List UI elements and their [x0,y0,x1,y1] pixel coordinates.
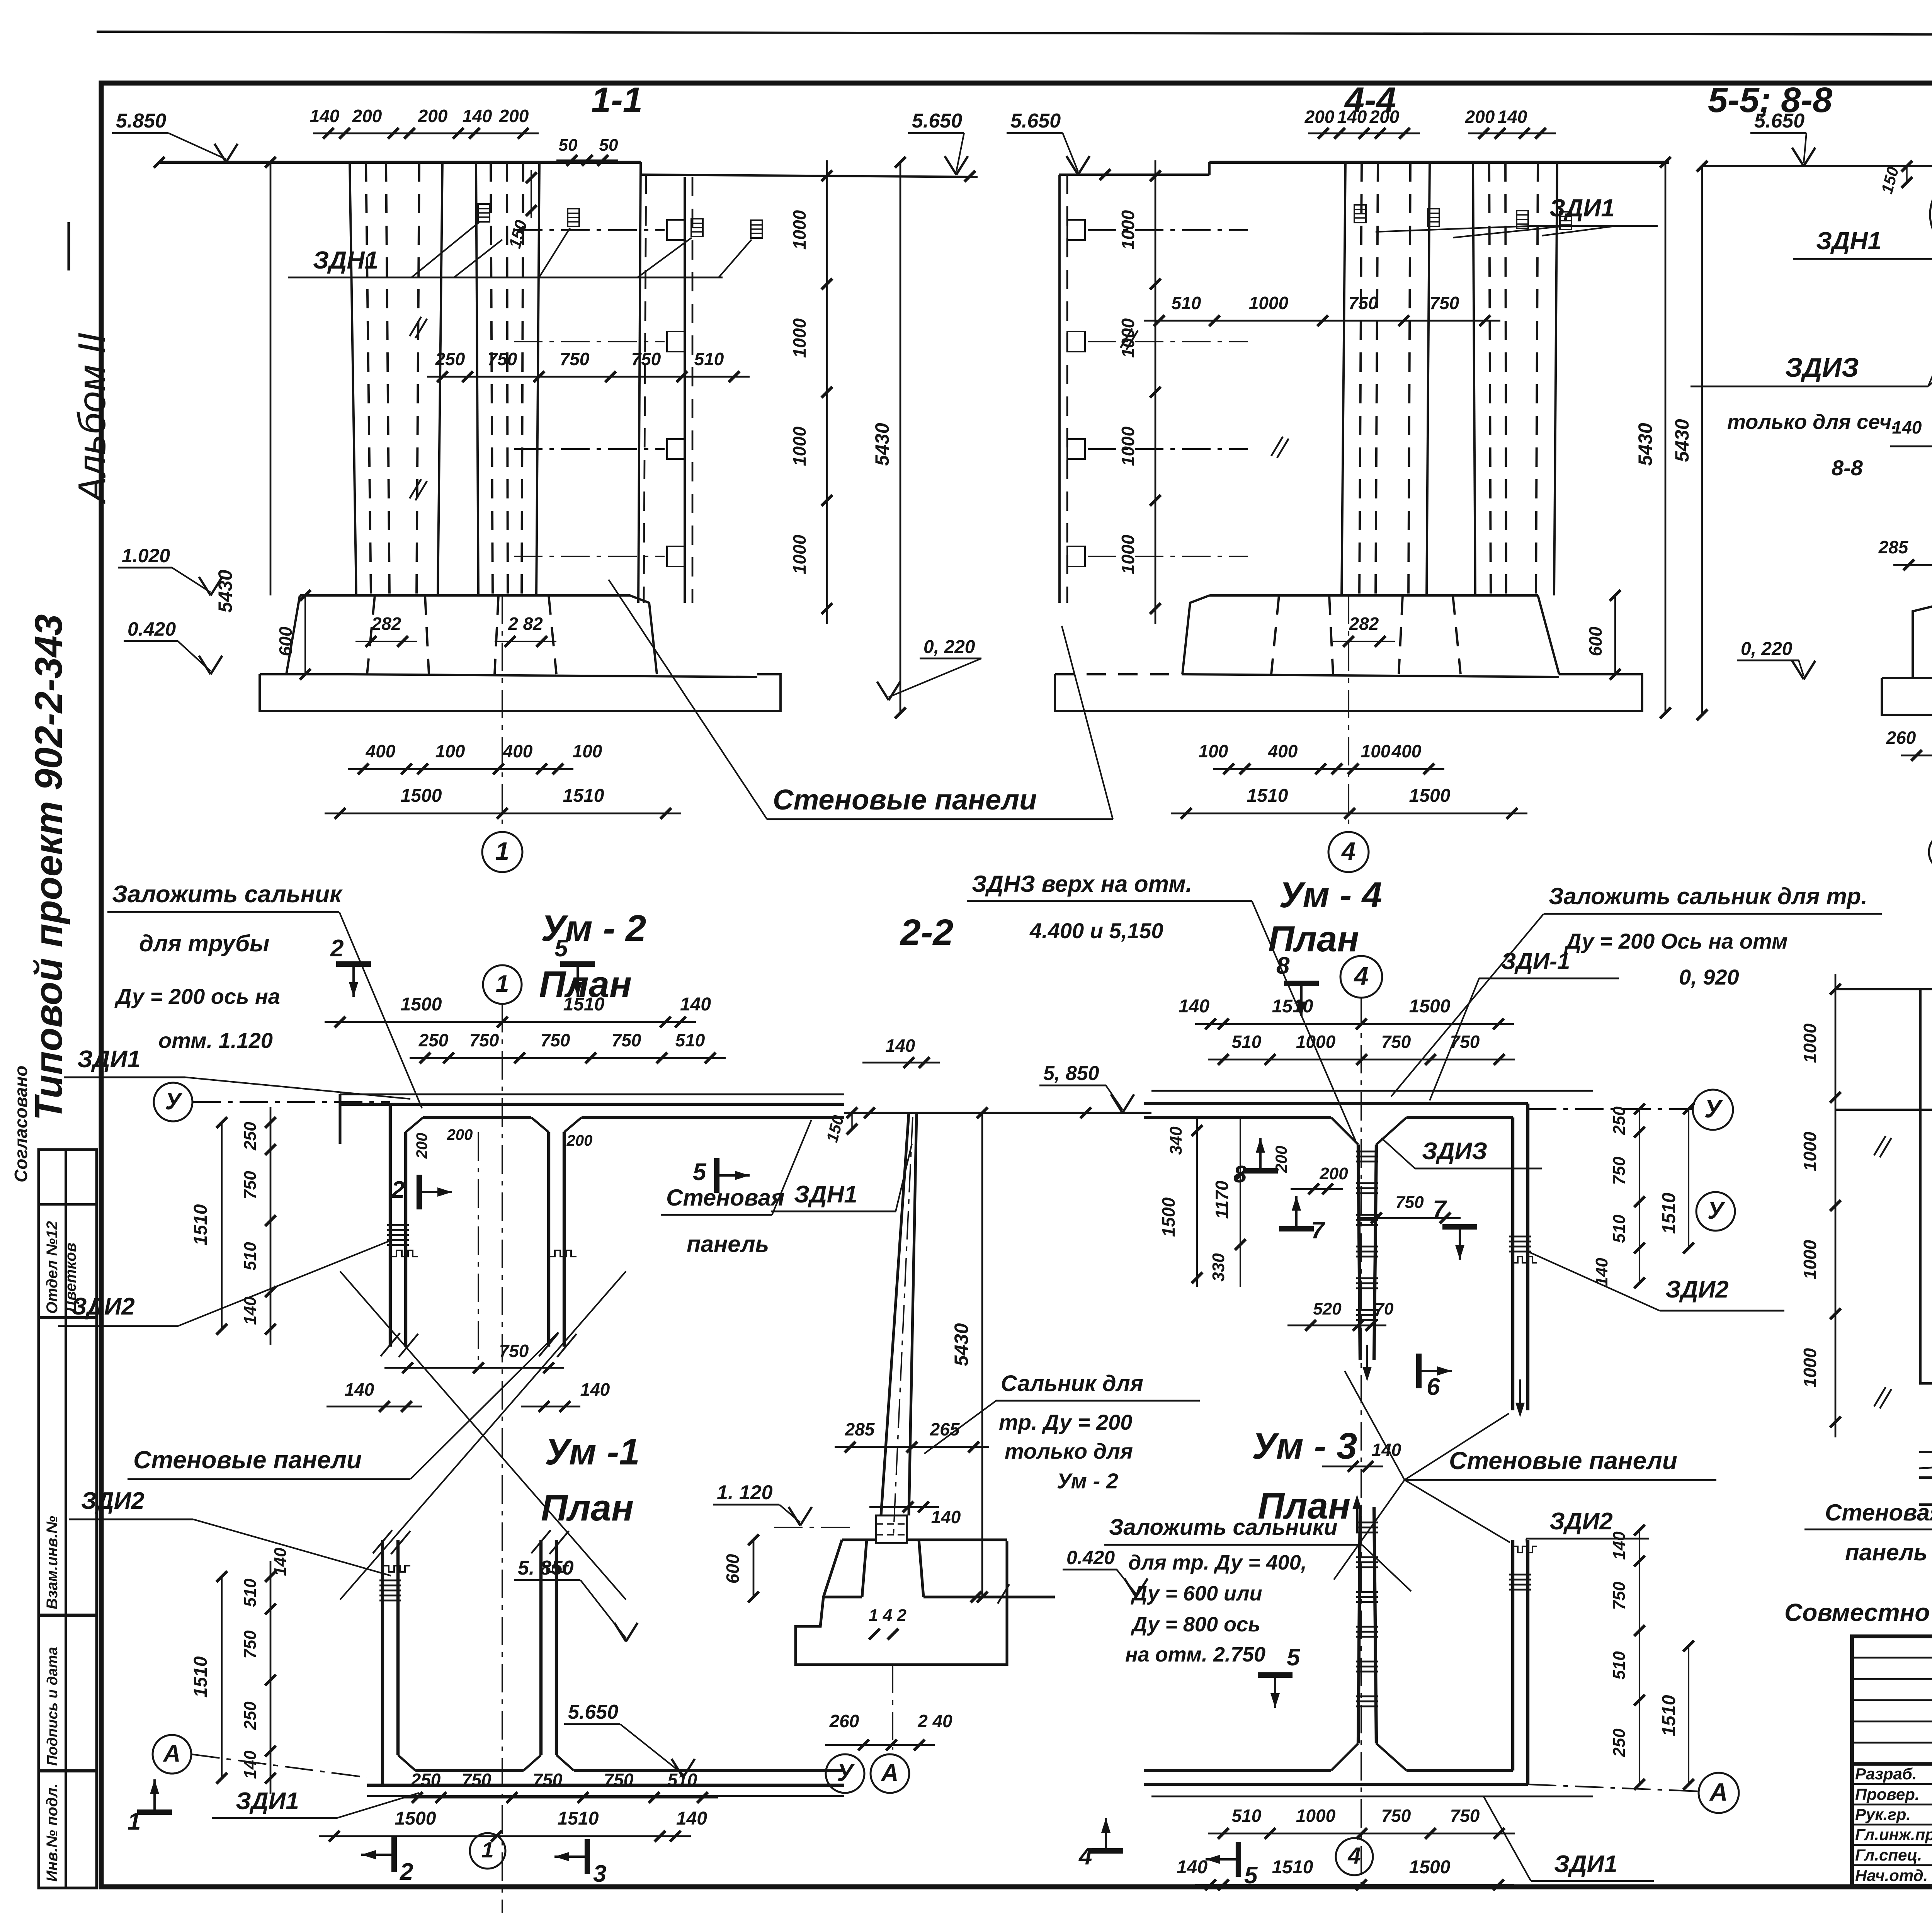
section marks 8 and 7 inside um-4 [1243,1168,1278,1173]
left dim column 1000x4 section 4-4 [1155,160,1156,624]
svg-text:750: 750 [560,349,590,369]
svg-text:200: 200 [566,1132,593,1149]
svg-text:750: 750 [612,1030,641,1050]
right dim column plan um-3 [1639,1530,1640,1784]
dims 260 240 section 5-5 [1901,755,1932,757]
svg-text:265: 265 [930,1419,960,1439]
svg-text:Разраб.: Разраб. [1855,1765,1917,1783]
svg-text:250: 250 [1610,1728,1629,1757]
dim 140 1510 1500 above plan um-4 [1195,1023,1514,1025]
svg-text:8: 8 [1233,1161,1247,1188]
dim 5430 right section 1-1 [900,162,901,713]
svg-text:200: 200 [499,106,529,126]
section mark 8 top um-4 [1284,981,1319,986]
svg-text:Типовой проект 902-2-343: Типовой проект 902-2-343 [27,614,70,1121]
dim 510 1000 750 750 plan um-4 [1208,1059,1515,1061]
svg-text:1000: 1000 [1118,534,1138,574]
svg-text:Гл.инж.пр: Гл.инж.пр [1855,1825,1932,1844]
chamfers um-4 [1331,1117,1358,1145]
svg-text:1510: 1510 [190,1656,211,1697]
section mark 1 bottom left [137,1810,172,1815]
svg-text:для тр. Ду = 400,: для тр. Ду = 400, [1128,1551,1307,1574]
sleeve level line 2-2 [774,1527,856,1528]
dim 600 left section 1-1 [304,595,306,674]
right dim column plan um-4 [1639,1109,1640,1283]
leg arrows um-3 [1352,1495,1362,1509]
svg-text:5430: 5430 [951,1323,972,1366]
svg-text:750: 750 [1610,1156,1629,1185]
dim 600 section 2-2 [753,1540,755,1597]
dims below plan um-3 [1208,1833,1515,1835]
svg-text:1510: 1510 [558,1808,599,1829]
svg-text:1: 1 [481,1838,494,1862]
footing body outline 2-2 [796,1540,1007,1665]
svg-text:600: 600 [276,626,296,656]
dim 250 750 750 750 510 plan um-2 [410,1057,726,1059]
leg arrows um-4 [1362,1367,1372,1381]
svg-text:50: 50 [599,136,618,155]
svg-text:2 82: 2 82 [508,614,543,634]
svg-text:2: 2 [330,935,344,962]
svg-text:750: 750 [631,349,661,369]
left dim column plan um-1 [270,1561,272,1794]
svg-text:750: 750 [241,1171,260,1199]
svg-text:5.650: 5.650 [568,1701,618,1723]
svg-text:140: 140 [680,994,711,1015]
right dim column 1000x4 section 1-1 [826,160,828,624]
svg-text:1 4 2: 1 4 2 [869,1606,906,1625]
height dim 5430 section 5-5 [1701,166,1703,715]
dim 140 at wall bottom 2-2 [869,1506,939,1508]
svg-text:250: 250 [435,349,465,369]
svg-text:отм. 1.120: отм. 1.120 [158,1028,273,1053]
svg-text:140: 140 [931,1507,961,1527]
svg-text:100: 100 [573,741,602,761]
svg-text:140: 140 [271,1548,290,1576]
stitch marks legs um-1 [379,1580,401,1582]
svg-text:Подпись и дата: Подпись и дата [44,1647,61,1766]
svg-text:6: 6 [1427,1374,1440,1400]
svg-text:200: 200 [447,1126,473,1143]
stitch marks legs um-2 [387,1224,409,1226]
svg-text:Рук.гр.: Рук.гр. [1855,1805,1911,1823]
svg-text:1500: 1500 [395,1808,436,1829]
foundation section 4-4 [1209,594,1538,597]
svg-text:5430: 5430 [214,570,236,612]
svg-text:140: 140 [241,1750,260,1779]
dims 100-400 row section 4-4 [1213,768,1444,770]
svg-text:1000: 1000 [1800,1131,1820,1171]
svg-text:5430: 5430 [1634,423,1656,466]
svg-text:Ду = 600 или: Ду = 600 или [1131,1582,1262,1605]
foundation footing dashed inner 1-1 [367,595,375,674]
svg-text:3: 3 [593,1861,606,1887]
svg-text:1: 1 [128,1808,141,1835]
svg-text:1000: 1000 [789,210,810,250]
height dim 5430 section 2-2 [981,1113,983,1597]
axis bubble U plan um-4 [1693,1090,1733,1130]
floor line 6-6 [1919,1382,1932,1384]
svg-text:510: 510 [675,1030,705,1050]
left signature table [39,1150,97,1888]
svg-text:520: 520 [1313,1299,1342,1318]
plan um-2 walls [340,1094,844,1095]
svg-text:Отдел №12: Отдел №12 [44,1221,61,1314]
svg-text:750: 750 [1450,1032,1480,1052]
svg-text:260: 260 [829,1711,859,1731]
svg-text:0.420: 0.420 [1066,1547,1115,1568]
svg-text:0, 220: 0, 220 [923,637,975,657]
svg-text:285: 285 [845,1419,875,1439]
hidden dashed diagonal 6-6 [1919,1456,1932,1468]
base slab section 4-4 [1055,674,1642,711]
svg-text:Нач.отд.: Нач.отд. [1855,1866,1928,1884]
plan um-1 walls [367,1795,844,1797]
svg-text:Стеновые панели: Стеновые панели [773,784,1037,816]
section marks bottom um-3 [1088,1848,1123,1854]
svg-text:750: 750 [469,1030,499,1050]
svg-text:1510: 1510 [1659,1192,1679,1234]
svg-text:510: 510 [1232,1806,1262,1826]
svg-text:ЗДИ1: ЗДИ1 [1554,1851,1617,1878]
svg-text:200: 200 [1319,1164,1348,1183]
wall lines group2 section 4-4 [1473,162,1475,595]
dim 510 1000 750 750 section 4-4 [1144,320,1500,322]
dim rows above walls 4-4 [1308,133,1420,134]
svg-text:Инв.№ подл.: Инв.№ подл. [44,1783,61,1882]
leg end cut marks um-1 [373,1530,392,1553]
svg-text:1000: 1000 [1296,1806,1336,1826]
svg-text:Стеновая: Стеновая [1825,1500,1932,1526]
svg-text:ЗДИ1: ЗДИ1 [77,1046,141,1073]
svg-text:1000: 1000 [1249,293,1289,313]
detail circle II section 5-5 [1930,173,1932,256]
svg-text:1: 1 [495,837,509,865]
dims 285 265 section 2-2 [835,1446,989,1448]
svg-text:1510: 1510 [1272,1857,1313,1878]
dims 285 265 section 5-5 [1893,564,1932,566]
grid bubble 4 above plan um-4 [1340,956,1382,998]
svg-text:750: 750 [533,1770,563,1790]
svg-text:750: 750 [241,1630,260,1659]
foundation section 5-5 [1913,603,1932,678]
break marks section 4-4 [1121,328,1132,348]
chamfers um-2 [406,1117,423,1132]
svg-text:2: 2 [391,1177,405,1203]
grid bubble 1 below section 1-1 [502,595,503,833]
svg-text:200: 200 [1369,107,1400,127]
svg-text:750: 750 [499,1341,529,1361]
svg-text:400: 400 [503,741,533,761]
svg-text:5. 850: 5. 850 [518,1557,574,1579]
svg-text:1.020: 1.020 [122,545,170,566]
svg-text:140: 140 [1610,1531,1629,1560]
svg-text:200: 200 [352,106,382,126]
section mark 2 top plan um-2 [336,961,371,967]
svg-text:Ду = 200 Ось на отм: Ду = 200 Ось на отм [1564,929,1788,953]
svg-text:только для сеч.: только для сеч. [1727,410,1897,434]
dims 260 240 section 2-2 [825,1744,935,1746]
anchor bolts section 4-4 [1354,205,1366,223]
svg-text:0, 220: 0, 220 [1741,639,1793,659]
svg-text:140: 140 [463,106,492,126]
svg-text:5: 5 [1287,1644,1301,1671]
svg-text:750: 750 [1381,1032,1411,1052]
svg-text:140: 140 [1372,1440,1401,1460]
axis bubble A plan um-1 [153,1735,191,1774]
svg-text:Ум -1: Ум -1 [545,1431,640,1473]
left panel 6-6 [1919,989,1922,1383]
dim row 250-750-750-750-510 section 1-1 [427,376,750,378]
wall section 2-2 [881,1113,909,1515]
svg-text:285: 285 [1878,537,1909,557]
svg-text:Совместно с данным см. л.л.: Совместно с данным см. л.л. КЖ- 44,45,46… [1784,1599,1932,1626]
anchor bolts ZDN1 section 1-1 [478,204,490,222]
svg-text:100: 100 [1361,741,1391,761]
svg-text:140: 140 [676,1808,707,1829]
svg-text:Заложить сальник для тр.: Заложить сальник для тр. [1549,883,1867,909]
svg-text:70: 70 [1375,1299,1394,1318]
svg-text:Ду = 800 ось: Ду = 800 ось [1131,1613,1260,1636]
left dim column plan um-2 [270,1107,272,1345]
svg-text:У: У [1708,1197,1725,1224]
svg-text:510: 510 [241,1242,260,1270]
svg-text:250: 250 [411,1770,441,1790]
svg-text:200: 200 [1465,107,1495,127]
svg-text:340: 340 [1167,1126,1185,1155]
svg-text:Заложить сальник: Заложить сальник [112,881,343,908]
cross leaders X um plans left [410,1332,558,1479]
svg-text:А: А [1709,1778,1728,1806]
svg-text:8-8: 8-8 [1832,456,1863,480]
svg-text:282: 282 [1349,614,1379,634]
svg-text:510: 510 [1610,1651,1629,1680]
svg-text:510: 510 [694,349,724,369]
svg-text:Ум - 4: Ум - 4 [1279,874,1382,915]
svg-text:ЗДН1: ЗДН1 [313,246,378,274]
svg-text:750: 750 [462,1770,492,1790]
svg-text:1500: 1500 [1409,786,1451,806]
svg-text:1500: 1500 [401,786,442,806]
svg-text:1510: 1510 [1272,996,1313,1017]
svg-text:250: 250 [418,1030,449,1050]
svg-text:750: 750 [1610,1582,1629,1610]
svg-text:2 40: 2 40 [917,1711,952,1731]
svg-text:50: 50 [559,136,578,155]
section 1-1 top slab line [159,161,641,164]
svg-text:140: 140 [580,1379,610,1400]
top line section 2-2 [844,1112,1151,1114]
svg-text:1000: 1000 [1118,210,1138,250]
break marks 6-6 [1874,1136,1886,1155]
svg-text:2: 2 [400,1859,413,1885]
svg-text:1000: 1000 [1118,318,1138,358]
title block signature rows [1852,1783,1932,1785]
inner dims um-4 [1196,1117,1198,1287]
svg-text:140: 140 [886,1036,915,1056]
stitch marks on um-3 T-leg [1356,1522,1378,1524]
svg-text:У: У [165,1088,183,1115]
svg-text:330: 330 [1209,1253,1228,1282]
svg-text:1500: 1500 [1409,996,1451,1017]
svg-text:600: 600 [1585,626,1605,656]
dim 600 right section 4-4 [1614,595,1616,674]
dim row 140-200-200-140-200 above walls 1-1 [313,133,539,134]
svg-text:ЗДИ2: ЗДИ2 [1665,1276,1729,1303]
svg-text:140: 140 [1177,1857,1207,1878]
svg-text:8: 8 [1276,952,1290,979]
wall panel verticals with tabs section 1-1 [684,177,686,603]
svg-text:5.850: 5.850 [116,110,166,132]
title block outer [1852,1636,1932,1886]
svg-text:1000: 1000 [789,426,810,466]
svg-text:750: 750 [1450,1806,1480,1826]
svg-text:Ум - 3: Ум - 3 [1252,1425,1357,1467]
svg-text:4: 4 [1353,962,1368,991]
svg-text:ЗДИ1: ЗДИ1 [236,1788,299,1815]
axis line U and bubble plan um-2 [154,1083,192,1121]
svg-text:только для: только для [1005,1439,1133,1463]
svg-text:тр. Ду = 200: тр. Ду = 200 [999,1410,1132,1434]
leg end cut marks um-2 [381,1333,400,1356]
svg-text:1500: 1500 [1158,1197,1179,1237]
svg-text:510: 510 [668,1770,697,1790]
svg-text:140: 140 [241,1296,260,1325]
svg-text:5.650: 5.650 [1010,110,1061,132]
svg-text:ЗДИ2: ЗДИ2 [81,1488,145,1514]
wall lines group2 section 1-1 [476,162,478,595]
long top line 6-6 [1835,1109,1932,1111]
axis bubble U left 6-6 [1696,1192,1735,1231]
dim 1500 1510 section 1-1 [325,813,681,815]
section marks bottom um-1 [391,1837,397,1872]
svg-text:План: План [541,1487,634,1529]
svg-text:Стеновые панели: Стеновые панели [133,1446,362,1474]
svg-text:200: 200 [1304,107,1335,127]
svg-text:1000: 1000 [1800,1023,1820,1063]
top line section 5-5 [1702,165,1932,167]
foundation footing left section 1-1 [286,595,348,674]
svg-text:7: 7 [1311,1217,1325,1244]
svg-text:282: 282 [371,614,401,634]
svg-text:750: 750 [1349,293,1378,313]
svg-text:Стеновые панели: Стеновые панели [1449,1447,1677,1475]
dim 1510 1500 section 4-4 [1171,813,1527,815]
right height dim 5430 section 4-4 [1665,162,1667,713]
svg-text:4: 4 [1347,1843,1361,1869]
svg-text:140: 140 [1179,996,1209,1017]
svg-text:600: 600 [723,1554,743,1583]
svg-text:4: 4 [1078,1843,1092,1870]
svg-text:750: 750 [1381,1806,1411,1826]
svg-text:400: 400 [1391,741,1422,761]
pedestal sides 2-2 [862,1540,867,1597]
top margin line [97,32,1932,36]
svg-text:5: 5 [693,1159,707,1185]
dim 50-50 above panel 1-1 [556,160,618,162]
svg-text:ЗДН1: ЗДН1 [1816,227,1881,255]
svg-text:1170: 1170 [1212,1180,1232,1219]
svg-text:Ду = 200 ось на: Ду = 200 ось на [114,984,280,1009]
svg-text:Согласовано: Согласовано [11,1066,31,1182]
wall lines group1 section 4-4 [1342,162,1345,595]
svg-text:4: 4 [1341,837,1355,865]
svg-text:Сальник для: Сальник для [1001,1371,1143,1396]
svg-text:140: 140 [310,106,340,126]
svg-text:1500: 1500 [401,994,442,1015]
dim 140 top section 2-2 [862,1062,940,1064]
svg-text:У: У [837,1760,855,1786]
svg-text:1-1: 1-1 [591,80,643,120]
svg-text:1510: 1510 [190,1204,211,1245]
svg-text:панель: панель [1845,1539,1927,1565]
svg-text:5, 850: 5, 850 [1043,1062,1099,1085]
dim 140 above um-3 leg [1322,1466,1383,1468]
svg-text:1. 120: 1. 120 [717,1481,773,1504]
grid bubble 4 below section 4-4 [1348,595,1349,833]
svg-text:200: 200 [413,1133,430,1159]
svg-text:4.400 и 5,150: 4.400 и 5,150 [1029,918,1163,943]
stitch ZDI2 on right leg um-3 [1509,1574,1531,1576]
dims 140 under legs um-2 [327,1406,422,1408]
svg-text:ЗДИЗ: ЗДИЗ [1785,352,1859,383]
axis bubble A plan um-3 [1699,1773,1739,1813]
svg-text:5: 5 [554,935,568,962]
plan um-3 walls [1151,1796,1593,1798]
svg-text:Гл.спец.: Гл.спец. [1855,1846,1922,1864]
stitch ZDI2 on right leg um-4 [1509,1236,1531,1238]
svg-text:Заложить сальники: Заложить сальники [1109,1515,1338,1540]
svg-text:250: 250 [241,1122,260,1151]
svg-text:140: 140 [1498,107,1527,127]
grid bubble 1 above plan um-2 [483,965,522,1004]
svg-text:260: 260 [1886,728,1916,748]
svg-text:1000: 1000 [1118,426,1138,466]
main slab line 6-6 [1835,988,1932,990]
chamfers um-1 [398,1755,415,1770]
sleeve block section 2-2 [876,1515,907,1543]
dim 140 mid wall 5-5 [1890,446,1932,447]
svg-text:750: 750 [541,1030,570,1050]
svg-text:Альбом II: Альбом II [70,333,114,504]
svg-text:1510: 1510 [1659,1695,1679,1736]
svg-text:А: А [881,1760,899,1786]
svg-text:1000: 1000 [1800,1240,1820,1279]
svg-text:1000: 1000 [789,534,810,574]
left dim column 1000 6-6 [1835,974,1837,1437]
svg-text:1500: 1500 [1409,1857,1451,1878]
wall lines group1 section 1-1 (solid+formwork dashed) [350,162,356,595]
svg-text:1510: 1510 [563,786,604,806]
svg-text:400: 400 [1268,741,1298,761]
panel verticals with tabs section 4-4 left [1058,175,1061,603]
svg-text:ЗДИ1: ЗДИ1 [1549,194,1615,222]
svg-text:140: 140 [1337,107,1367,127]
top slab line section 4-4 [1209,161,1669,164]
svg-text:5.650: 5.650 [912,110,962,132]
svg-text:200: 200 [1272,1146,1290,1173]
grid bubbles U A below 2-2 [892,1665,893,1750]
svg-text:1000: 1000 [1296,1032,1336,1052]
svg-text:510: 510 [1232,1032,1262,1052]
svg-text:750: 750 [488,349,517,369]
svg-text:5430: 5430 [1671,419,1693,462]
svg-text:для трубы: для трубы [139,930,269,956]
svg-text:1: 1 [496,971,509,997]
svg-text:1000: 1000 [789,318,810,358]
slab top lines 2-2 [823,1595,862,1598]
svg-text:510: 510 [1172,293,1201,313]
